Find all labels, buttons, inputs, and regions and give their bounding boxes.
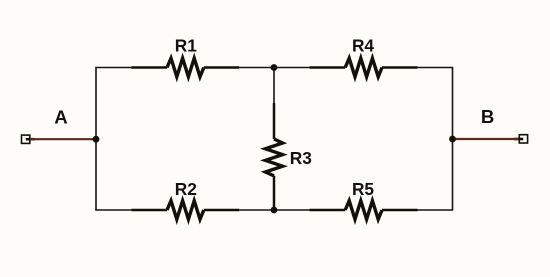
wire bottom-left segment xyxy=(95,209,131,211)
wire right vertical bus xyxy=(452,68,454,211)
svg-text:R2: R2 xyxy=(175,179,197,199)
wire R4 to top-right corner xyxy=(418,67,454,69)
wire A (net A) xyxy=(30,138,96,140)
terminal A square xyxy=(22,135,30,143)
node left junction xyxy=(93,136,100,143)
wire B (net B) xyxy=(453,138,519,140)
resistor R2 xyxy=(131,201,239,220)
node bottom-middle junction xyxy=(271,207,278,214)
terminal A pin stub xyxy=(26,138,35,141)
wire R5 to bottom-right corner xyxy=(418,209,454,211)
resistor R3 xyxy=(265,103,282,210)
svg-text:R4: R4 xyxy=(352,36,374,56)
resistor R1 xyxy=(131,58,239,77)
wire top-left segment xyxy=(95,67,131,69)
wire top-middle node to R4 xyxy=(274,67,310,69)
wire R1 to top-middle node xyxy=(239,67,274,69)
node right junction xyxy=(449,136,456,143)
terminal B pin stub xyxy=(514,138,523,141)
node top-middle junction xyxy=(271,64,278,71)
svg-text:R5: R5 xyxy=(352,179,374,199)
terminal B square xyxy=(519,135,527,143)
wire bottom-middle node to R5 xyxy=(274,209,310,211)
svg-text:R1: R1 xyxy=(175,36,197,56)
wire center vertical thin segment xyxy=(273,68,275,104)
svg-text:B: B xyxy=(481,106,494,127)
svg-text:A: A xyxy=(54,106,67,127)
resistor R4 xyxy=(310,58,418,77)
wire left vertical bus xyxy=(95,68,97,211)
resistor R5 xyxy=(310,201,418,220)
svg-text:R3: R3 xyxy=(290,148,312,168)
wire R2 to bottom-middle node xyxy=(239,209,274,211)
